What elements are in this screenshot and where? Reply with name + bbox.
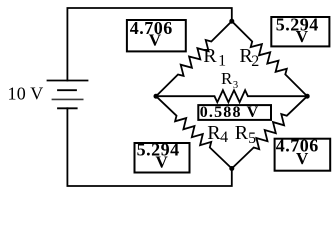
svg-text:V: V [296,149,309,168]
svg-text:V: V [156,153,169,172]
svg-text:10 V: 10 V [8,84,44,104]
svg-text:V: V [149,31,162,50]
svg-text:0.588 V: 0.588 V [200,104,260,121]
svg-text:V: V [296,27,309,46]
